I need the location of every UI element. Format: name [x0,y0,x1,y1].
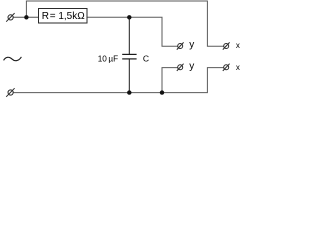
capacitor C [122,17,136,92]
terminal input top-left [6,13,14,22]
terminal x row 2 [223,64,230,71]
svg-text:10 µF: 10 µF [98,54,118,63]
wire main horizontal left [13,16,38,18]
junction dot C (capacitor bottom) [127,90,131,94]
terminal x row 1 [223,42,230,49]
svg-text:R = 1,5kΩ: R = 1,5kΩ [42,11,85,22]
svg-text:y: y [189,61,194,72]
terminal y row 2 [177,64,184,71]
svg-text:x: x [236,63,240,72]
svg-text:C: C [143,54,149,64]
svg-text:x: x [236,41,240,50]
wire top rail [26,1,223,46]
wire bottom rail [13,68,224,93]
terminal y row 1 [177,42,184,49]
junction dot B (capacitor top) [127,15,131,19]
resistor R box [39,9,88,24]
wire riser to y terminal row 2 [162,68,178,93]
junction dot A (top-left) [24,15,28,19]
svg-text:y: y [189,40,194,51]
wire main horizontal right [87,17,178,46]
terminal input bottom-left [6,88,14,97]
AC source tilde [4,57,22,61]
junction dot D (bottom riser) [160,90,164,94]
